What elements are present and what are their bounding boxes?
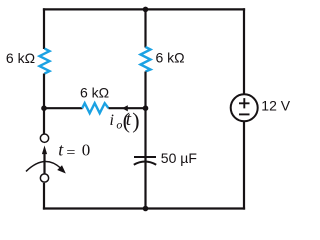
wire top rail [43, 8, 245, 10]
wire middle rail mid [144, 72, 146, 162]
svg-text:=: = [66, 144, 75, 161]
capacitor C1 top plate [134, 156, 156, 158]
svg-text:): ) [132, 108, 139, 133]
voltage source V1 circle [231, 94, 258, 121]
wire left rail middle [43, 74, 45, 135]
switch blade arrowhead [42, 146, 47, 155]
svg-text:o: o [116, 118, 122, 132]
svg-text:0: 0 [82, 141, 91, 160]
capacitor C1 curved bottom plate [134, 161, 156, 164]
wire bottom rail [43, 207, 245, 209]
value label 6 kOhm left [6, 50, 35, 66]
node top junction [143, 7, 149, 13]
value label 12 V [261, 98, 290, 114]
wire middle rail lower [144, 161, 146, 210]
value label 50 uF [161, 150, 197, 166]
voltage source minus sign [239, 113, 250, 115]
resistor R3 6 kOhm horizontal zigzag [82, 103, 108, 113]
node left junction [41, 105, 47, 111]
value label 6 kOhm horizontal [80, 85, 109, 101]
wire right rail lower [243, 121, 245, 210]
svg-text:12 V: 12 V [261, 98, 290, 114]
node middle junction [143, 105, 149, 111]
node bottom junction [143, 206, 149, 212]
label t = 0 [58, 140, 90, 162]
svg-text:i: i [110, 112, 114, 129]
voltage source plus sign [239, 98, 250, 108]
switch bottom contact circle [40, 174, 48, 182]
label i_o(t) [110, 108, 140, 133]
wire middle rail upper [144, 9, 146, 47]
wire horizontal left segment [44, 107, 83, 109]
switch blade wire [43, 153, 45, 174]
resistor R2 6 kOhm middle zigzag [141, 47, 151, 72]
switch motion arc [26, 162, 61, 172]
svg-text:6 kΩ: 6 kΩ [6, 50, 35, 66]
switch top contact circle [40, 134, 48, 142]
svg-text:t: t [58, 140, 64, 160]
wire horizontal right segment [109, 107, 146, 109]
svg-text:t: t [126, 109, 132, 130]
switch motion arc arrowhead [57, 165, 66, 173]
wire right rail upper [243, 8, 245, 94]
wire left rail upper [43, 8, 45, 49]
resistor R1 6 kOhm left zigzag [40, 49, 50, 74]
current arrow i_o(t) [122, 105, 128, 111]
wire left rail lower [43, 183, 45, 210]
value label 6 kOhm middle [156, 50, 185, 66]
svg-text:6 kΩ: 6 kΩ [80, 85, 109, 101]
svg-text:6 kΩ: 6 kΩ [156, 50, 185, 66]
svg-text:50 µF: 50 µF [161, 150, 197, 166]
